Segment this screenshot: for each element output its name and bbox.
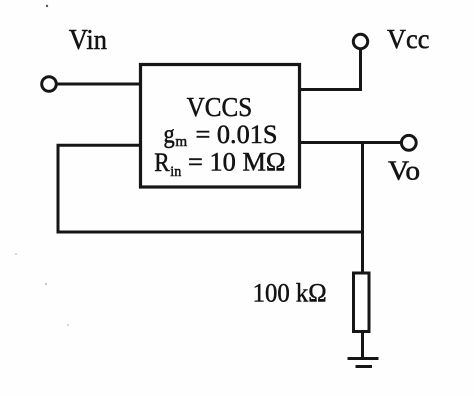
wire: Vin terminal to VCCS input: [56, 83, 142, 86]
svg-text:VCCS: VCCS: [187, 92, 253, 122]
svg-text:Vcc: Vcc: [387, 24, 429, 54]
wire: vertical from output node down to resistor: [361, 143, 364, 275]
speck: [46, 5, 48, 7]
wire: Vcc vertical riser: [359, 50, 362, 91]
svg-text:= 10 MΩ: = 10 MΩ: [188, 147, 286, 177]
speck: [45, 283, 47, 285]
resistor R1 body: [354, 273, 370, 332]
terminal Vin: [42, 77, 57, 92]
wire: resistor bottom to ground: [361, 330, 364, 358]
ground: [348, 359, 379, 367]
svg-text:in: in: [170, 164, 181, 180]
wire: feedback path (box left, down, across to output node): [58, 145, 363, 232]
terminal Vcc: [353, 34, 367, 48]
svg-text:m: m: [175, 134, 187, 150]
svg-text:Vo: Vo: [388, 155, 420, 185]
svg-text:100 kΩ: 100 kΩ: [253, 278, 327, 308]
svg-text:= 0.01S: = 0.01S: [196, 120, 278, 149]
wire: output Vo from VCCS right: [300, 141, 403, 144]
svg-text:R: R: [154, 147, 170, 177]
svg-text:g: g: [164, 118, 175, 148]
svg-text:Vin: Vin: [69, 25, 107, 56]
terminal Vo: [401, 135, 416, 150]
speck: [67, 324, 69, 326]
wire: Vcc horizontal from VCCS top-right: [300, 88, 363, 91]
VCCS block U1: [141, 65, 300, 188]
speck: [15, 253, 17, 255]
